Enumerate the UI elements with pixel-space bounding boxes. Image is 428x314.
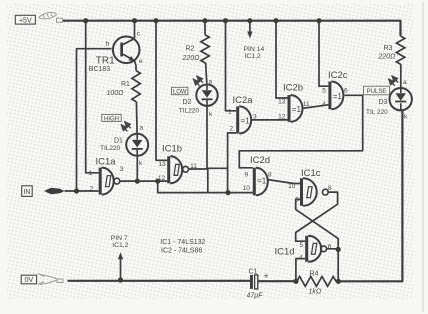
svg-text:C1: C1: [249, 269, 258, 276]
svg-text:=1: =1: [292, 105, 302, 114]
svg-text:2: 2: [229, 126, 233, 133]
svg-text:12: 12: [278, 114, 286, 121]
svg-text:47μF: 47μF: [247, 293, 264, 300]
svg-text:IC2d: IC2d: [250, 155, 270, 166]
svg-text:=1: =1: [333, 92, 343, 101]
svg-text:IC2a: IC2a: [233, 95, 254, 106]
svg-text:=1: =1: [241, 117, 251, 126]
svg-text:TIL220: TIL220: [100, 145, 121, 152]
svg-text:5: 5: [322, 87, 326, 94]
svg-text:LOW: LOW: [173, 90, 187, 96]
svg-text:IC1 - 74LS132: IC1 - 74LS132: [160, 239, 205, 246]
svg-text:3: 3: [253, 114, 257, 121]
svg-text:100Ω: 100Ω: [107, 90, 125, 97]
svg-text:13: 13: [278, 99, 286, 106]
svg-text:BC183: BC183: [89, 66, 111, 73]
svg-text:e: e: [139, 58, 143, 65]
svg-text:1: 1: [228, 109, 232, 116]
svg-text:a: a: [403, 79, 407, 86]
svg-text:D3: D3: [379, 99, 388, 106]
svg-text:1: 1: [89, 170, 93, 177]
svg-text:a: a: [140, 125, 144, 132]
svg-text:R3: R3: [384, 45, 393, 52]
svg-text:5: 5: [299, 242, 303, 249]
svg-text:8: 8: [268, 172, 272, 179]
svg-text:=1: =1: [257, 177, 267, 186]
svg-text:TIL220: TIL220: [179, 107, 200, 114]
svg-text:IC1c: IC1c: [301, 168, 321, 179]
svg-text:IC1a: IC1a: [96, 157, 117, 168]
svg-text:IC1d: IC1d: [275, 247, 295, 258]
svg-text:2: 2: [90, 186, 94, 193]
svg-text:IC2c: IC2c: [328, 70, 348, 81]
svg-text:R2: R2: [186, 46, 195, 53]
svg-text:220Ω: 220Ω: [182, 55, 201, 62]
svg-text:IC2 - 74LS86: IC2 - 74LS86: [161, 247, 202, 254]
svg-text:IN: IN: [23, 189, 30, 196]
svg-text:12: 12: [158, 175, 166, 182]
svg-text:IC1b: IC1b: [162, 144, 182, 155]
svg-text:IC1,2: IC1,2: [245, 53, 261, 60]
svg-text:+: +: [264, 271, 269, 281]
svg-text:6: 6: [344, 88, 348, 95]
svg-text:4: 4: [322, 101, 326, 108]
svg-text:220Ω: 220Ω: [378, 54, 397, 61]
svg-text:1kΩ: 1kΩ: [309, 289, 322, 296]
svg-text:0V: 0V: [25, 277, 34, 284]
svg-text:10: 10: [243, 185, 251, 192]
svg-text:D1: D1: [114, 137, 123, 144]
svg-text:HIGH: HIGH: [104, 116, 119, 122]
svg-text:11: 11: [303, 101, 310, 108]
svg-text:PULSE: PULSE: [367, 89, 387, 95]
svg-text:11: 11: [190, 163, 197, 170]
svg-text:b: b: [106, 40, 110, 47]
svg-text:9: 9: [244, 172, 248, 179]
svg-text:IC1,2: IC1,2: [112, 242, 128, 249]
svg-text:10: 10: [288, 183, 296, 190]
svg-text:PIN 7: PIN 7: [111, 235, 128, 242]
svg-text:TIL 220: TIL 220: [366, 109, 388, 116]
svg-text:D2: D2: [183, 99, 192, 106]
svg-text:R1: R1: [121, 81, 130, 88]
svg-text:9: 9: [295, 197, 299, 204]
svg-text:IC2b: IC2b: [283, 83, 303, 94]
svg-text:13: 13: [158, 161, 166, 168]
svg-text:6: 6: [328, 244, 332, 251]
svg-text:+5V: +5V: [19, 17, 32, 24]
svg-text:TR1: TR1: [96, 56, 115, 67]
svg-text:R4: R4: [310, 271, 319, 278]
svg-text:a: a: [209, 79, 213, 86]
svg-text:8: 8: [328, 185, 332, 192]
svg-text:4: 4: [299, 255, 303, 262]
svg-text:3: 3: [120, 166, 124, 173]
svg-text:PIN 14: PIN 14: [244, 46, 265, 53]
